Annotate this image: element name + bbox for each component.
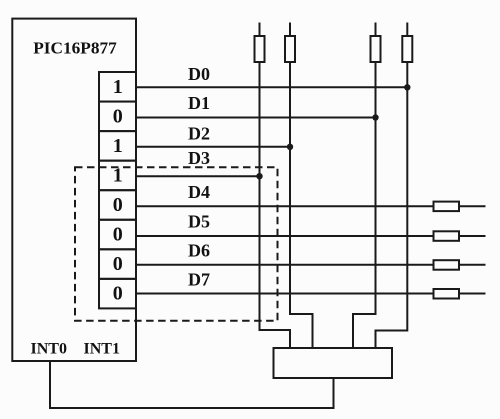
svg-text:D7: D7: [188, 270, 210, 290]
svg-text:PIC16P877: PIC16P877: [33, 39, 117, 58]
svg-text:1: 1: [113, 165, 123, 187]
svg-text:0: 0: [113, 105, 123, 127]
svg-text:0: 0: [113, 224, 123, 246]
svg-text:1: 1: [113, 135, 123, 157]
svg-text:INT0: INT0: [31, 341, 67, 358]
svg-text:D3: D3: [188, 148, 210, 168]
svg-text:0: 0: [113, 194, 123, 216]
svg-text:D0: D0: [188, 64, 210, 84]
svg-text:D6: D6: [188, 241, 210, 261]
svg-text:D5: D5: [188, 212, 210, 232]
svg-text:0: 0: [113, 283, 123, 305]
svg-text:D4: D4: [188, 182, 210, 202]
svg-text:1: 1: [113, 76, 123, 98]
svg-text:INT1: INT1: [84, 341, 120, 358]
svg-text:D2: D2: [188, 124, 210, 144]
svg-text:D1: D1: [188, 93, 210, 113]
svg-text:0: 0: [113, 253, 123, 275]
